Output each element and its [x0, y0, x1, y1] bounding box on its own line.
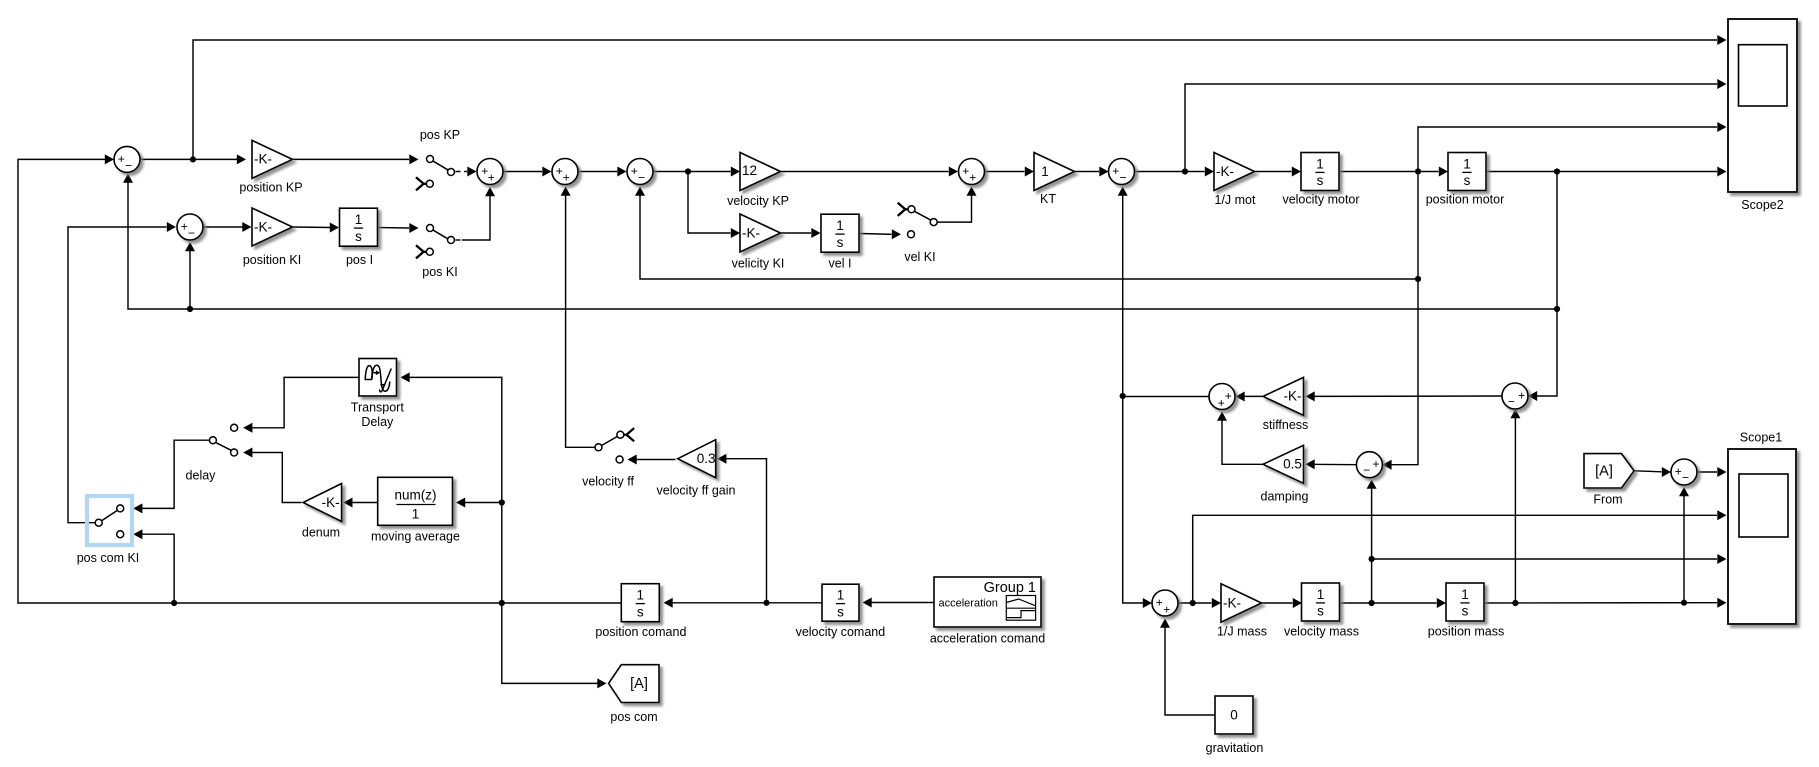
svg-text:-K-: -K-: [1216, 164, 1234, 179]
svg-text:position mass: position mass: [1428, 625, 1504, 639]
wire: position comand branch down to goto tag pos com: [502, 603, 607, 688]
gain block "KT" value 1: [1034, 153, 1075, 191]
svg-text:position KI: position KI: [243, 253, 301, 267]
svg-text:−: −: [638, 171, 645, 185]
integrator block "position motor" 1/s: [1448, 153, 1486, 191]
svg-text:Scope1: Scope1: [1740, 431, 1782, 445]
svg-text:s: s: [1462, 604, 1469, 619]
svg-text:-K-: -K-: [1223, 595, 1241, 610]
svg-text:+: +: [181, 220, 188, 234]
wire: gravitation constant to sum M1 bottom: [1160, 619, 1215, 716]
wire: position mass feedback up to sum R bottom: [1510, 409, 1520, 603]
gain block "velocity KP" value 12: [740, 153, 781, 191]
wire: velocity mass feedback up to sum D bottom: [1367, 480, 1377, 604]
svg-text:+: +: [969, 171, 976, 185]
svg-text:Scope2: Scope2: [1741, 198, 1783, 212]
wire: sum S7 to gain 1/J mot: [1135, 167, 1214, 177]
wire: gain damping to sum ST bottom: [1217, 412, 1264, 465]
wire: Transport Delay output to switch delay upper port: [243, 377, 359, 432]
svg-text:damping: damping: [1261, 490, 1309, 504]
svg-text:velocity ff gain: velocity ff gain: [657, 484, 736, 498]
wire: switch pos com KI common output to sum P2: [68, 222, 176, 523]
integrator block "vel I" 1/s: [821, 214, 859, 252]
junction: [499, 600, 505, 606]
goto tag block "pos com" [A]: [609, 665, 659, 703]
wire: position feedback line to sum P1 bottom: [123, 174, 1557, 310]
wire: acceleration branch to Scope1 input 2: [1193, 510, 1727, 603]
sum block M1 (mass force adder) (+,+): [1152, 590, 1178, 617]
svg-text:stiffness: stiffness: [1263, 418, 1309, 432]
manual switch "pos KP": [416, 156, 455, 191]
gain block "velocity ff gain" value 0.3 (left facing): [678, 440, 716, 478]
svg-text:gravitation: gravitation: [1206, 741, 1264, 755]
svg-text:pos I: pos I: [346, 253, 373, 267]
svg-text:1: 1: [637, 588, 645, 603]
svg-text:+: +: [1163, 603, 1170, 617]
wire: gain position KP output to switch pos KP: [293, 154, 419, 164]
svg-text:1: 1: [412, 506, 420, 521]
svg-text:1: 1: [836, 218, 844, 233]
junction: [1369, 600, 1375, 606]
svg-text:Delay: Delay: [361, 415, 394, 429]
gain block "denum" -K- (left facing): [303, 484, 342, 522]
wire: integrator velocity motor to integrator position motor: [1340, 167, 1449, 177]
manual switch "delay": [209, 424, 237, 456]
svg-text:acceleration comand: acceleration comand: [930, 632, 1045, 646]
wire: integrator velocity mass to integrator position mass: [1340, 598, 1447, 608]
wire: From tag to sum F: [1634, 467, 1671, 477]
junction: [1512, 600, 1518, 606]
integrator block "pos I" 1/s: [340, 208, 378, 246]
svg-text:s: s: [637, 604, 644, 619]
wire: gain 1/J mot to integrator velocity motor: [1255, 167, 1302, 177]
wire: sum S5 to gain velocity KP: [654, 167, 741, 177]
wire: position command feedback to sum P1 (left column): [18, 154, 622, 603]
wire: sum F to Scope1 input 1: [1697, 467, 1727, 477]
sum block S7 (+,-): [1109, 159, 1135, 185]
junction: [1190, 600, 1196, 606]
svg-text:+: +: [1218, 396, 1225, 410]
svg-text:vel I: vel I: [829, 257, 852, 271]
junction: [685, 168, 691, 174]
wire: switch delay common to switch pos com KI upper port: [133, 440, 209, 513]
wire: gain velocity KP to sum S6: [781, 167, 959, 177]
wire: sum S6 to gain KT: [985, 167, 1034, 177]
svg-text:1/J mass: 1/J mass: [1217, 625, 1267, 639]
gain block "1/J mot" -K-: [1214, 153, 1255, 191]
wire: integrator vel I to switch vel KI: [860, 229, 902, 239]
integrator block "position mass" 1/s: [1446, 583, 1484, 621]
wire: branch to gain velicity KI: [688, 172, 740, 239]
svg-text:-K-: -K-: [254, 219, 272, 234]
sum block ST (stiffness+damping adder) (+,+): [1209, 384, 1235, 410]
svg-text:+: +: [563, 171, 570, 185]
junction: [1681, 600, 1687, 606]
svg-text:vel KI: vel KI: [904, 250, 935, 264]
wire: gain KT to sum S7: [1075, 167, 1109, 177]
svg-text:1: 1: [1463, 157, 1471, 172]
transport delay block "Transport Delay": [359, 359, 397, 397]
wire: sum M1 output to gain 1/J mass: [1178, 598, 1221, 608]
sum block D (relative velocity) (-,+): [1356, 452, 1382, 478]
gain block "position KP" -K-: [252, 140, 293, 178]
svg-text:position motor: position motor: [1426, 193, 1505, 207]
svg-text:pos com KI: pos com KI: [77, 551, 140, 565]
svg-text:velocity motor: velocity motor: [1282, 193, 1359, 207]
wire: gain 1/J mass to integrator velocity mass: [1262, 598, 1303, 608]
from tag block "From" [A]: [1584, 454, 1634, 488]
svg-text:From: From: [1593, 493, 1622, 507]
svg-text:velocity ff: velocity ff: [582, 474, 634, 488]
svg-text:−: −: [1119, 171, 1126, 185]
svg-text:0.3: 0.3: [697, 451, 716, 466]
wire: switch velocity ff common up to sum S4 bottom: [561, 187, 595, 448]
wire: velocity motor feedback down to sum D (damping branch): [1382, 172, 1418, 470]
svg-text:delay: delay: [186, 468, 217, 482]
gain block "1/J mass" -K-: [1221, 584, 1262, 623]
wire: switch pos KI output (dashed segment): [456, 239, 463, 241]
svg-text:+: +: [1156, 596, 1163, 610]
junction: [1415, 276, 1421, 282]
wire: branch to Scope2 input 1: [193, 35, 1727, 159]
svg-text:pos KP: pos KP: [420, 128, 460, 142]
manual switch "pos com KI": [95, 505, 124, 538]
svg-text:1: 1: [1461, 587, 1469, 602]
junction: [171, 600, 177, 606]
svg-text:Group 1: Group 1: [984, 580, 1036, 596]
scope block "Scope2": [1728, 19, 1797, 192]
wire: switch vel KI common to sum S6 bottom: [937, 187, 977, 223]
svg-text:1: 1: [837, 588, 845, 603]
wire: gain position KI to integrator pos I: [293, 223, 340, 233]
wire: integrator position mass to Scope1 input 4: [1485, 598, 1727, 608]
integrator block "position comand" 1/s: [621, 584, 659, 622]
svg-text:−: −: [188, 226, 195, 240]
sum block S2 "position KI error" (+,-): [177, 214, 203, 240]
wire: sum S4 to sum S5: [579, 167, 627, 177]
wire: integrator position motor to Scope2 input 4: [1487, 167, 1727, 177]
svg-text:[A]: [A]: [630, 676, 648, 692]
svg-text:denum: denum: [302, 525, 340, 539]
junction: [190, 156, 196, 162]
svg-text:-K-: -K-: [1284, 389, 1302, 404]
discrete filter block "moving average" num(z)/1: [378, 477, 453, 525]
svg-text:−: −: [1363, 463, 1370, 477]
wire: sum P2 to gain position KI: [204, 222, 252, 232]
junction: [1415, 168, 1421, 174]
svg-text:acceleration: acceleration: [939, 598, 998, 610]
wire: gain velocity ff gain to switch velocity ff lower port: [628, 455, 676, 465]
sum block R (relative position) (-,+): [1502, 383, 1528, 409]
sum block S1 "position error" (+,-): [114, 146, 140, 172]
wire: sum S3 to sum S4: [504, 167, 552, 177]
svg-text:+: +: [488, 171, 495, 185]
wire: gain denum to switch delay lower port: [243, 448, 301, 503]
svg-text:velocity comand: velocity comand: [796, 625, 886, 639]
svg-text:1: 1: [1317, 587, 1325, 602]
manual switch "velocity ff": [595, 428, 634, 463]
svg-text:+: +: [1112, 164, 1119, 178]
wire: sum ST output down to sum M1 input: [1123, 396, 1152, 608]
junction: [1554, 306, 1560, 312]
svg-text:s: s: [1317, 173, 1324, 188]
svg-text:+: +: [118, 152, 125, 166]
svg-text:position KP: position KP: [239, 181, 302, 195]
junction: [763, 600, 769, 606]
wire: gain stiffness to sum ST: [1236, 392, 1264, 402]
svg-text:velicity KI: velicity KI: [732, 257, 785, 271]
svg-text:s: s: [1464, 173, 1471, 188]
wire: sum P1 output to gain position KP: [140, 154, 246, 164]
svg-text:-K-: -K-: [322, 495, 340, 510]
sum block F (+,-): [1671, 459, 1697, 485]
svg-text:moving average: moving average: [371, 530, 460, 544]
svg-text:1/J mot: 1/J mot: [1215, 193, 1257, 207]
svg-text:+: +: [1372, 457, 1379, 471]
junction: [499, 499, 505, 505]
wire: switch pos KI output up to sum S3 bottom: [462, 187, 495, 240]
wire: position comand branch to Transport Delay input: [401, 372, 502, 603]
integrator block "velocity motor" 1/s: [1301, 153, 1339, 191]
svg-text:0.5: 0.5: [1283, 457, 1302, 472]
wire: switch pos KP output (dashed) into sum S3: [456, 171, 468, 173]
svg-text:+: +: [631, 164, 638, 178]
gain block "position KI" -K-: [252, 208, 293, 246]
svg-text:[A]: [A]: [1595, 464, 1613, 480]
manual switch "vel KI": [898, 203, 938, 238]
sum block S3 (+,+): [477, 159, 503, 185]
svg-text:−: −: [125, 159, 132, 173]
gain block "damping" value 0.5 (left facing): [1263, 445, 1304, 483]
gain block "velicity KI" -K-: [740, 214, 781, 252]
integrator block "velocity mass" 1/s: [1302, 583, 1340, 621]
sum block S5 (+,-): [627, 159, 653, 185]
wire: sum ST output up to sum S7 bottom: [1118, 187, 1128, 397]
wire: gain velicity KI to integrator vel I: [781, 228, 821, 238]
scope block "Scope1": [1728, 449, 1796, 624]
svg-text:s: s: [837, 235, 844, 250]
svg-text:pos com: pos com: [610, 710, 657, 724]
svg-text:12: 12: [742, 163, 757, 178]
wire: velocity feedback to sum S5 bottom: [635, 187, 1418, 280]
integrator block "velocity comand" 1/s: [822, 584, 859, 621]
sum block S4 (+,+): [552, 159, 578, 185]
wire: acceleration comand block to integrator velocity comand: [863, 598, 935, 608]
junction: [1554, 168, 1560, 174]
wire: branch to Scope2 input 2: [1185, 79, 1727, 172]
svg-text:-K-: -K-: [742, 225, 760, 240]
wire: sum D output to gain damping: [1306, 459, 1357, 469]
wire: sum ST output segment: [1123, 396, 1209, 398]
svg-text:s: s: [837, 604, 844, 619]
svg-text:s: s: [1317, 604, 1324, 619]
signal builder block "acceleration comand" (Group 1): [934, 577, 1041, 627]
sum block S6 (+,+): [959, 159, 985, 185]
wire: position feedback branch to sum P2 bottom: [185, 242, 195, 309]
selection highlight around switch "pos com KI": [87, 496, 132, 545]
wire: moving average output to gain denum: [343, 498, 377, 508]
arrowhead into sum S3: [467, 167, 476, 177]
svg-text:num(z): num(z): [394, 487, 436, 502]
svg-text:velocity KP: velocity KP: [727, 194, 789, 208]
svg-text:1: 1: [355, 212, 363, 227]
junction: [1182, 168, 1188, 174]
wire: position comand branch to switch pos com KI lower port: [133, 529, 174, 603]
svg-text:1: 1: [1316, 157, 1324, 172]
svg-text:0: 0: [1230, 708, 1238, 723]
manual switch "pos KI": [416, 225, 455, 259]
junction: [1120, 393, 1126, 399]
gain block "stiffness" -K- (left facing): [1263, 377, 1304, 415]
wire: integrator velocity comand to integrator position comand: [664, 598, 823, 608]
constant block "gravitation" value 0: [1215, 696, 1253, 734]
wire: branch to Scope2 input 3: [1418, 122, 1727, 172]
wire: position mass branch up to sum F bottom: [1679, 487, 1689, 603]
svg-text:−: −: [1508, 395, 1515, 409]
wire: branch up to gain velocity ff gain: [717, 454, 766, 603]
wire: position motor feedback down to sum R: [1528, 172, 1557, 402]
svg-text:-K-: -K-: [254, 152, 272, 167]
wire: velocity mass to Scope1 input 3: [1372, 554, 1727, 564]
svg-text:s: s: [355, 229, 362, 244]
wire: integrator pos I to switch pos KI: [378, 223, 419, 233]
svg-text:position comand: position comand: [595, 625, 686, 639]
svg-text:velocity mass: velocity mass: [1284, 625, 1359, 639]
svg-text:−: −: [1682, 471, 1689, 485]
svg-text:KT: KT: [1040, 192, 1056, 206]
junction: [187, 306, 193, 312]
svg-text:Transport: Transport: [351, 401, 405, 415]
svg-text:1: 1: [1041, 164, 1049, 179]
junction: [1369, 556, 1375, 562]
svg-text:+: +: [1225, 389, 1232, 403]
svg-text:+: +: [1675, 464, 1682, 478]
svg-text:+: +: [1518, 388, 1525, 402]
wire: branch to moving average input: [456, 498, 502, 508]
svg-text:pos KI: pos KI: [422, 265, 457, 279]
wire: sum R output to gain stiffness: [1306, 391, 1503, 401]
